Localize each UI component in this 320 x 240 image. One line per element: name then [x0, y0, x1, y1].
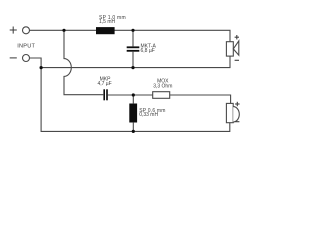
svg-text:0,33 mH: 0,33 mH [139, 112, 158, 118]
svg-text:INPUT: INPUT [17, 43, 35, 49]
svg-text:3,3 Ohm: 3,3 Ohm [153, 83, 172, 89]
svg-text:4,7 µF: 4,7 µF [97, 81, 111, 87]
svg-text:1,5 mH: 1,5 mH [99, 19, 116, 25]
svg-text:6,8 µF: 6,8 µF [141, 48, 155, 54]
